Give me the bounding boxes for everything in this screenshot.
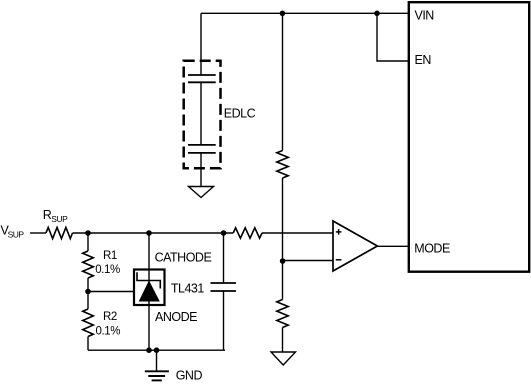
wire capacitor bottom lead: [223, 291, 225, 350]
comparator - input marker: [336, 259, 342, 261]
comparator + input marker: [336, 229, 342, 235]
ground GND bars: [145, 371, 169, 380]
svg-text:VIN: VIN: [415, 8, 435, 22]
resistor R2: [83, 309, 94, 337]
comparator U2: [333, 221, 377, 271]
svg-text:0.1%: 0.1%: [96, 326, 121, 338]
wire R2 top lead: [87, 292, 89, 310]
wire divider lower: [282, 261, 284, 300]
wire inverting input: [283, 260, 334, 262]
wire REF to TL431: [88, 291, 134, 293]
svg-text:0.1%: 0.1%: [95, 264, 120, 276]
wire divider to ground: [282, 328, 284, 353]
svg-text:R1: R1: [103, 250, 117, 262]
svg-text:SUP: SUP: [51, 214, 68, 224]
capacitor C1: [211, 283, 237, 291]
ground divider: [271, 352, 296, 365]
resistor RSUP: [46, 227, 73, 238]
wire EDLC top stem: [200, 13, 202, 75]
svg-text:R2: R2: [103, 311, 117, 323]
wire main rail: [73, 232, 234, 234]
resistor divider lower: [277, 300, 288, 328]
IC U1: [409, 2, 529, 272]
svg-text:CATHODE: CATHODE: [155, 251, 212, 265]
wire noninverting input: [262, 232, 333, 234]
EDLC dashed box: [184, 61, 221, 169]
node junction top rail / divider: [280, 11, 286, 17]
wire divider upper: [282, 13, 284, 150]
wire EDLC bottom to ground: [200, 153, 202, 187]
node junction rail / TL431: [146, 230, 152, 236]
svg-text:MODE: MODE: [414, 241, 450, 255]
node junction bottom rail / GND: [154, 347, 160, 353]
node junction rail / C1: [221, 230, 227, 236]
capacitor EDLC top cell: [188, 75, 216, 82]
wire R1 bottom lead: [87, 278, 89, 292]
svg-text:ANODE: ANODE: [155, 310, 197, 324]
wire R2 bottom lead: [87, 337, 89, 351]
TL431 U3 box: [134, 270, 165, 306]
wire GND stem: [156, 350, 158, 371]
resistor R1: [83, 251, 94, 278]
svg-text:TL431: TL431: [171, 281, 204, 295]
wire R1 top lead: [87, 233, 89, 251]
svg-text:SUP: SUP: [8, 229, 25, 239]
capacitor EDLC bottom cell: [188, 145, 216, 153]
ground EDLC: [189, 187, 214, 198]
wire TL431 cathode-anode: [148, 233, 150, 350]
wire VSUP lead: [30, 232, 46, 234]
node junction divider / inverting input: [280, 258, 286, 264]
node junction top rail / EN: [374, 11, 380, 17]
wire divider middle: [282, 178, 284, 261]
svg-text:EN: EN: [415, 53, 432, 67]
svg-text:EDLC: EDLC: [224, 107, 256, 121]
wire top rail VIN: [201, 12, 409, 14]
wire bottom rail: [88, 349, 225, 351]
node junction R1 / R2 / REF: [85, 289, 91, 295]
node junction bottom rail / TL431 anode: [146, 347, 152, 353]
node junction rail / R1: [85, 230, 91, 236]
svg-text:GND: GND: [176, 369, 203, 383]
TL431 diode triangle: [140, 282, 160, 302]
TL431 cathode bent bar: [137, 272, 160, 288]
wire comparator output to MODE: [377, 245, 408, 247]
resistor series to comparator: [233, 228, 262, 238]
wire capacitor top lead: [223, 233, 225, 283]
wire between EDLC cells: [200, 82, 202, 145]
wire EN branch: [377, 13, 409, 61]
resistor divider upper: [277, 151, 288, 179]
